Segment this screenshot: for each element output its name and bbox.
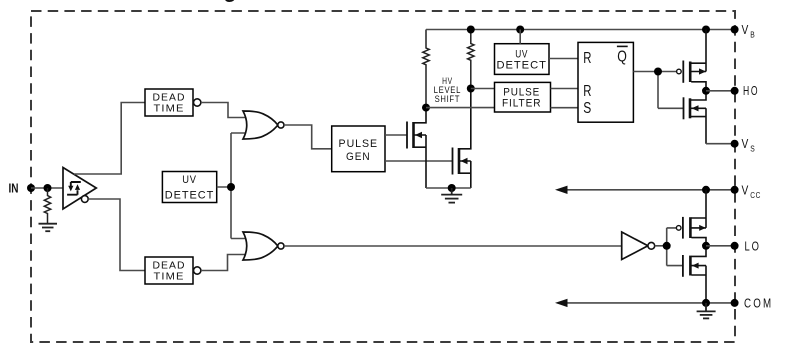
- svg-text:S: S: [583, 100, 591, 117]
- node ground junction: [448, 184, 456, 192]
- svg-text:DETECT: DETECT: [165, 189, 215, 201]
- wire DT2 to NOR2 input B: [201, 255, 249, 271]
- svg-text:PULSE: PULSE: [339, 138, 379, 150]
- transistor Q1 (high-side PMOS): [677, 69, 682, 74]
- ground (COM): [697, 303, 716, 319]
- wire PULSE GEN to Q5 gate: [385, 134, 407, 136]
- node IN terminal: [27, 184, 35, 192]
- node rail UV detect: [516, 26, 524, 34]
- wire HO node to pin: [706, 90, 735, 92]
- transistor Q6 (level-shift NMOS): [453, 89, 471, 189]
- transistor Q4 (low-side NMOS): [683, 246, 706, 303]
- svg-text:R: R: [583, 50, 591, 67]
- schmitt hysteresis glyph: [67, 182, 81, 195]
- UV detect block U3 (high side): [495, 44, 550, 75]
- inverter G3: [622, 232, 648, 260]
- svg-text:IN: IN: [9, 180, 19, 195]
- svg-text:V: V: [742, 182, 749, 197]
- wire VB rail to U3: [519, 30, 521, 44]
- svg-text:S: S: [750, 144, 755, 154]
- transistor Q2 (high-side NMOS): [684, 91, 707, 144]
- svg-text:V: V: [742, 22, 749, 37]
- DT2 output bubble: [194, 267, 201, 274]
- wire LO node to pin: [706, 245, 735, 247]
- pin VS: [731, 140, 739, 148]
- node input junction: [44, 184, 52, 192]
- dead-time block DT1: [145, 89, 193, 116]
- svg-text:g: g: [224, 0, 237, 3]
- wire VCC line with arrow: [566, 189, 735, 191]
- wire U3 output to latch R: [549, 58, 578, 60]
- svg-text:CC: CC: [750, 190, 761, 200]
- svg-text:COM: COM: [744, 297, 773, 311]
- node rail Q1 drain: [702, 26, 710, 34]
- latch U4 (RS latch): [578, 42, 633, 122]
- UV detect block U2 (input side): [162, 172, 216, 203]
- svg-text:UV: UV: [182, 174, 197, 186]
- svg-text:R: R: [583, 83, 591, 100]
- wire IN to buffer input: [31, 187, 63, 189]
- dead-time block DT2: [145, 257, 193, 284]
- NOR gate G1: [243, 111, 278, 139]
- svg-text:DETECT: DETECT: [496, 59, 547, 71]
- svg-text:B: B: [750, 30, 755, 40]
- transistor Q5 (level-shift NMOS): [407, 108, 426, 188]
- wire PULSE GEN to Q6 gate: [385, 160, 453, 162]
- pin COM: [731, 299, 739, 307]
- wire U1 inverted output to DEAD TIME 2: [88, 199, 145, 271]
- wire PULSE FILTER to latch R: [551, 88, 579, 90]
- node inverter output: [663, 242, 671, 250]
- resistor R2 (HV level shift): [468, 30, 474, 89]
- svg-text:V: V: [742, 136, 749, 151]
- wire G2 output to LO inverter: [284, 245, 622, 247]
- wire R2 node to PULSE FILTER upper input: [471, 88, 495, 90]
- wire inverter output to gates: [655, 228, 683, 266]
- pin HO: [731, 87, 739, 95]
- svg-text:GEN: GEN: [346, 151, 371, 163]
- svg-text:TIME: TIME: [154, 104, 185, 115]
- node latch output: [654, 68, 662, 76]
- node Q6 drain / R2 junction: [467, 85, 475, 93]
- ground (level shift): [441, 188, 462, 203]
- wire VB rail: [426, 29, 735, 31]
- node rail R2: [467, 26, 475, 34]
- node HO output: [702, 87, 710, 95]
- wire U1 top output to DEAD TIME 1: [74, 103, 145, 175]
- svg-text:HO: HO: [743, 84, 759, 98]
- wire Q2 source to VS pin: [706, 143, 735, 145]
- svg-text:FILTER: FILTER: [502, 97, 541, 109]
- DT1 output bubble: [194, 99, 201, 106]
- resistor R1 (HV level shift): [423, 30, 429, 108]
- svg-text:LO: LO: [745, 239, 761, 253]
- wire COM line with arrow: [566, 302, 735, 304]
- node COM junction: [702, 299, 710, 307]
- schmitt buffer U1: [63, 168, 96, 210]
- ground (input resistor): [39, 224, 58, 232]
- node Q5 drain / R1 junction: [422, 104, 430, 112]
- U1 inverted output bubble: [81, 196, 88, 203]
- wire latch output to gates: [633, 72, 683, 109]
- pulse filter block: [495, 82, 551, 112]
- transistor Q3 (low-side PMOS): [676, 226, 681, 231]
- svg-text:DEAD: DEAD: [153, 92, 186, 103]
- wire R1 node to PULSE FILTER lower input: [426, 107, 495, 109]
- pin VCC: [731, 186, 739, 194]
- svg-text:TIME: TIME: [154, 272, 185, 283]
- svg-text:Q: Q: [617, 49, 627, 66]
- resistor R_IN: [44, 188, 50, 224]
- pin VB: [731, 26, 739, 34]
- pin LO: [731, 242, 739, 250]
- wire U2 output bus to NOR inputs: [217, 133, 249, 239]
- NOR gate G2: [243, 232, 278, 260]
- pulse generator block: [332, 126, 385, 172]
- wire G1 output to PULSE GEN: [284, 125, 332, 149]
- svg-text:DEAD: DEAD: [153, 260, 186, 271]
- node UV detect junction: [227, 183, 235, 191]
- wire level-shift ground rail: [426, 187, 471, 189]
- node VCC Q3 drain: [702, 186, 710, 194]
- svg-text:SHIFT: SHIFT: [435, 94, 461, 104]
- wire DT1 to NOR1 input A: [201, 103, 249, 118]
- wire PULSE FILTER to latch S: [551, 107, 579, 109]
- node LO output: [702, 242, 710, 250]
